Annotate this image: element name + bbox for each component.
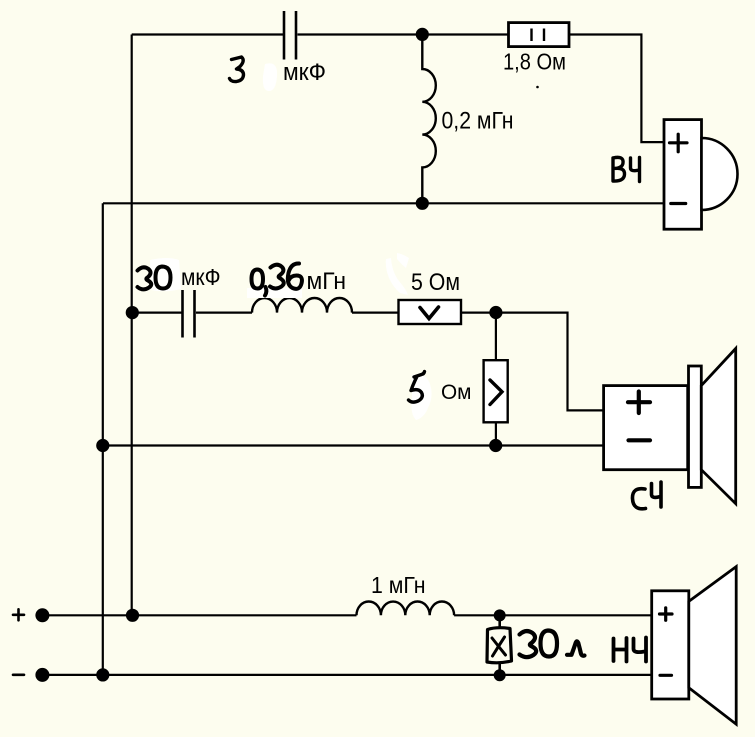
node J10 (junction dot) xyxy=(494,669,506,681)
correction fluid patch behind C2 value xyxy=(150,258,181,291)
terminal plus dot xyxy=(35,608,49,622)
label: handwritten ВЧ for SP1 xyxy=(613,157,640,181)
wire: horizontal net y=203 from left bus to SP1 minus terminal xyxy=(103,202,664,204)
wire: J4 right then down to SP2 plus terminal xyxy=(496,313,604,411)
speaker SP3 (НЧ woofer) body xyxy=(652,591,689,699)
capacitor C1 (3 мкФ) plates xyxy=(284,11,296,60)
capacitor C2 (30 мкФ) plates xyxy=(183,290,195,338)
speaker SP1 dome xyxy=(702,138,738,210)
resistor R3 (5 Ом) vertical body xyxy=(484,360,508,422)
label: handwritten НЧ for SP3 xyxy=(614,638,647,662)
speaker SP3 plus pin xyxy=(660,608,673,621)
speaker SP2 frame bar xyxy=(689,366,702,487)
wire: C1 right plate to junction J1 xyxy=(298,33,423,35)
wire: L3 to speaker SP3 plus terminal xyxy=(454,614,652,616)
wire: R3 to junction J5 xyxy=(495,422,497,445)
wire: minus rail y=675 from terminal to speaker SP3 minus xyxy=(42,674,651,676)
speaker SP2 plus pin xyxy=(628,392,650,414)
svg-text:Ом: Ом xyxy=(441,381,472,404)
wire: J1 to resistor R1 xyxy=(422,33,508,35)
speaker SP2 minus pin xyxy=(629,438,651,442)
speaker SP1 plus pin xyxy=(670,134,688,152)
speaker SP1 minus pin xyxy=(671,202,686,205)
svg-text:мкФ: мкФ xyxy=(283,59,326,86)
svg-text:0,2 мГн: 0,2 мГн xyxy=(442,108,514,135)
wire: J4 down to resistor R3 xyxy=(495,313,497,361)
resistor R3 chevron mark xyxy=(490,380,502,405)
svg-text:мГн: мГн xyxy=(307,268,347,295)
terminal plus sign xyxy=(13,609,24,620)
terminal minus sign xyxy=(13,673,24,676)
wire: left bus vertical x=103 (node B) down to minus rail xyxy=(102,203,104,675)
resistor R2 (5 Ом) body xyxy=(399,300,462,324)
inductor L1 (0,2 мГн) vertical xyxy=(422,34,436,203)
speaker SP2 cone xyxy=(701,349,735,504)
wire: L2 to resistor R2 xyxy=(352,312,399,314)
wire: left bus vertical x=132 (node A) down to plus rail xyxy=(131,35,133,616)
label: handwritten 5 for R3 xyxy=(409,372,425,403)
resistor R1 (1,8 Ом) body xyxy=(509,23,570,47)
node J3 (junction dot, mid rail on bus A) xyxy=(126,306,139,319)
speaker SP1 (ВЧ tweeter) body xyxy=(664,120,702,230)
label: handwritten 30 л xyxy=(520,631,585,658)
svg-text:мкФ: мкФ xyxy=(181,264,221,290)
terminal minus dot xyxy=(35,668,49,682)
speaker SP3 cone xyxy=(689,567,736,725)
resistor R2 chevron mark xyxy=(420,307,439,319)
wire: horizontal net y=445 from bus B to SP2 minus terminal xyxy=(103,444,604,446)
speaker SP2 (СЧ midrange) body xyxy=(604,386,688,470)
svg-text:1 мГн: 1 мГн xyxy=(371,572,426,598)
node J8 (junction dot) xyxy=(494,609,506,621)
inductor L2 (0,36 мГн) horizontal xyxy=(252,298,352,313)
correction fluid patch near C1 label xyxy=(263,63,277,91)
wire: C2 to inductor L2 xyxy=(196,312,252,314)
node J1 (junction dot top) xyxy=(416,28,429,41)
inductor L3 (1 мГн) horizontal xyxy=(357,602,455,616)
svg-text:5 Ом: 5 Ом xyxy=(411,269,460,296)
label: handwritten СЧ for SP2 xyxy=(632,482,661,509)
label: handwritten value 3 for C1 xyxy=(230,57,244,82)
wire: top horizontal net (node A) from left bus corner to capacitor C1 xyxy=(132,33,284,35)
wire: plus rail y=615 from terminal to inductor L3 xyxy=(42,614,356,616)
node J6 (junction dot on left bus B) xyxy=(96,439,109,452)
speaker SP3 minus pin xyxy=(660,674,672,677)
node J7 (junction dot bus A on plus rail) xyxy=(126,609,139,622)
svg-text:1,8 Ом: 1,8 Ом xyxy=(503,49,566,75)
resistor R1 power ticks xyxy=(532,29,545,42)
wire: R4 down to J10 xyxy=(498,663,501,676)
wire: R1 to top-right corner and down to SP1 plus terminal xyxy=(569,35,664,143)
stray ink dot xyxy=(536,86,539,89)
wire: J8 down to R4 xyxy=(498,615,501,628)
node J4 (junction dot) xyxy=(489,306,502,319)
resistor R4 hand-drawn box xyxy=(487,628,512,663)
wire: R2 to junction J4 xyxy=(461,312,496,314)
node J2 (junction dot, bottom of L1) xyxy=(416,197,429,210)
node J5 (junction dot) xyxy=(489,439,502,452)
node J9 (junction dot bus B on minus rail) xyxy=(96,668,109,681)
correction fluid patch under 0,36 xyxy=(247,288,302,298)
correction fluid blob under R3 label xyxy=(412,374,432,420)
label: handwritten 0,36 for L2 xyxy=(252,263,302,295)
label: handwritten 30 for C2 xyxy=(138,267,171,290)
correction fluid streak above R2 xyxy=(386,253,409,295)
wire: J3 to capacitor C2 xyxy=(132,312,182,314)
resistor R4 cross mark xyxy=(492,637,506,656)
